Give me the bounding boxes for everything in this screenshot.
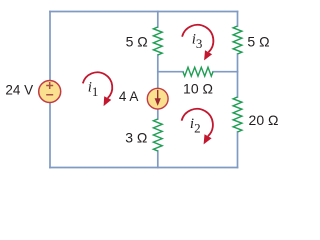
wire middle lower <box>157 151 159 168</box>
svg-text:i3: i3 <box>192 32 203 52</box>
wire top <box>50 11 238 13</box>
svg-text:10 Ω: 10 Ω <box>183 80 213 96</box>
wire left upper <box>49 12 51 81</box>
resistor 10ohm <box>183 67 213 76</box>
svg-text:5 Ω: 5 Ω <box>126 34 148 50</box>
svg-text:3 Ω: 3 Ω <box>125 130 147 146</box>
svg-text:20 Ω: 20 Ω <box>249 112 279 128</box>
wire right upper <box>237 12 239 27</box>
svg-text:i1: i1 <box>88 80 99 100</box>
wire middle between 4A source and 3ohm <box>157 109 159 119</box>
wire middle between 5ohm and 4A source <box>157 55 159 89</box>
wire bottom <box>50 167 238 169</box>
current source 4A <box>147 88 168 109</box>
svg-text:i2: i2 <box>190 116 201 136</box>
voltage source 24V <box>39 81 61 103</box>
mesh current loop i2 arrow <box>182 109 213 145</box>
svg-text:5 Ω: 5 Ω <box>247 34 269 50</box>
resistor 5ohm right <box>233 26 242 54</box>
wire right lower <box>237 132 239 168</box>
wire center horizontal left of 10ohm <box>158 71 183 73</box>
wire right between 5ohm and 20ohm <box>237 54 239 97</box>
wire center horizontal right of 10ohm <box>213 71 238 73</box>
resistor 5ohm middle <box>153 27 162 55</box>
resistor 20ohm <box>233 97 242 132</box>
mesh current loop i1 arrow <box>83 72 112 106</box>
mesh current loop i3 arrow <box>182 25 213 61</box>
svg-text:24 V: 24 V <box>5 82 33 97</box>
resistor 3ohm <box>153 119 162 151</box>
svg-text:4 A: 4 A <box>119 89 139 104</box>
wire left lower <box>49 103 51 168</box>
wire middle upper <box>157 12 159 28</box>
